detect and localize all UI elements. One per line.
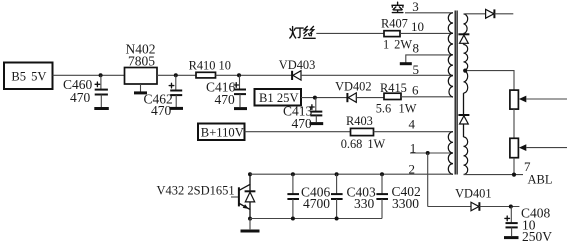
resistor R415 — [376, 81, 417, 116]
wire pin 1 — [410, 152, 453, 154]
svg-text:3300: 3300 — [392, 196, 419, 211]
svg-text:470: 470 — [70, 90, 91, 105]
ground — [241, 230, 260, 233]
regulator N402 7805 — [125, 42, 158, 92]
wire divider middle — [513, 109, 515, 138]
node at C462 — [174, 73, 178, 77]
wire R403 to winding pin 4 — [374, 131, 454, 133]
wire R407 to winding pin 10 — [400, 32, 453, 34]
svg-text:V432 2SD1651: V432 2SD1651 — [157, 184, 235, 198]
capacitor C402 — [376, 172, 420, 218]
diode D3 (HV winding, lower) — [458, 115, 469, 137]
wire pin1 down to VD401 — [427, 153, 429, 207]
transistor V432 2SD1651 — [157, 174, 256, 218]
transformer right winding section 1 — [464, 14, 468, 34]
node at C416 — [237, 73, 241, 77]
node collector — [248, 172, 252, 176]
svg-text:6: 6 — [412, 83, 419, 98]
wire top of right winding — [464, 13, 486, 15]
capacitor C403 — [331, 172, 376, 220]
wire VD401 to C408 — [479, 206, 519, 208]
svg-text:1 2W: 1 2W — [383, 37, 412, 51]
node at C413 — [313, 96, 317, 100]
node pin1 junction — [426, 151, 430, 155]
wire pin 3 stub — [405, 12, 453, 14]
svg-text:R403: R403 — [346, 114, 373, 128]
wire pin 8 — [406, 55, 453, 63]
box B5 5V — [4, 63, 53, 90]
ground — [94, 107, 109, 110]
wire divider bottom — [513, 158, 515, 175]
ground — [170, 107, 184, 110]
diode D1 (EHT, top right) — [486, 9, 495, 18]
wire R410 to VD403 — [216, 74, 292, 76]
svg-text:4700: 4700 — [303, 196, 330, 211]
svg-text:R410 10: R410 10 — [189, 58, 231, 72]
wire winding bottom to ABL — [464, 174, 524, 176]
svg-text:0.68 1W: 0.68 1W — [341, 137, 386, 151]
svg-text:470: 470 — [151, 103, 172, 118]
wire N402 to R410 — [157, 74, 196, 76]
wire B1 to VD402 — [301, 97, 347, 99]
svg-text:470: 470 — [292, 116, 313, 131]
box B1 25V — [255, 89, 302, 106]
wire VD402 to R415 — [356, 97, 384, 99]
box B+110V — [198, 124, 245, 141]
diode VD401 — [455, 187, 491, 211]
wire emitter to ground — [249, 219, 251, 230]
svg-text:5: 5 — [413, 62, 420, 77]
potentiometer RP1 (focus) — [510, 90, 567, 109]
resistor R403 — [341, 114, 386, 151]
capacitor C416 — [206, 75, 246, 107]
svg-text:B+110V: B+110V — [201, 126, 244, 140]
ground — [504, 236, 519, 239]
svg-text:B5 5V: B5 5V — [11, 70, 46, 84]
wire pin 2 rail (collector to winding) — [250, 173, 453, 175]
transformer T left winding section A (pins 3,10,8,5,6) — [448, 13, 453, 97]
wire R415 to winding pin 6 — [401, 96, 453, 98]
wire tap to divider — [467, 71, 514, 91]
capacitor C406 — [287, 172, 330, 220]
node ABL junction — [512, 173, 516, 177]
resistor R407 — [381, 17, 412, 52]
wire bottom rail — [250, 218, 382, 220]
capacitor C408 — [505, 206, 552, 244]
svg-text:5.6: 5.6 — [376, 102, 392, 116]
transformer right winding section 2 — [464, 45, 468, 94]
svg-text:330: 330 — [354, 196, 375, 211]
wire VD403 to winding pin 5 — [301, 74, 453, 76]
wire 5V rail from B5 to N402 — [53, 74, 125, 76]
node winding tap — [463, 69, 467, 73]
svg-text:8: 8 — [413, 41, 420, 56]
svg-text:R407: R407 — [381, 17, 408, 31]
label 灯丝 (filament) — [290, 26, 315, 38]
transformer core — [454, 11, 456, 175]
ground — [134, 91, 147, 94]
diode VD403 — [279, 58, 315, 80]
svg-text:VD401: VD401 — [455, 187, 491, 201]
resistor R410 — [189, 58, 231, 78]
transformer T left winding section B (pins 4,1,2) — [448, 132, 453, 175]
svg-text:VD402: VD402 — [335, 80, 371, 94]
wire pin1 to VD401 — [428, 206, 471, 208]
ground pin 8 — [400, 62, 412, 65]
node C408 — [509, 205, 513, 209]
transformer right winding section 3 — [464, 137, 468, 174]
wire winding plain segment — [463, 93, 465, 114]
ground — [234, 107, 247, 110]
svg-text:4: 4 — [409, 117, 416, 132]
wire EHT lead — [494, 13, 513, 15]
svg-text:10: 10 — [411, 19, 424, 34]
svg-text:1W: 1W — [399, 102, 417, 116]
diode VD402 — [335, 80, 371, 103]
svg-text:VD403: VD403 — [279, 58, 315, 72]
label 空 (empty) pin 3 — [392, 2, 403, 12]
diode D2 (HV winding, upper) — [458, 34, 469, 44]
ground — [310, 122, 324, 125]
wire filament to R407 — [316, 32, 384, 34]
svg-text:470: 470 — [215, 92, 236, 107]
svg-text:7805: 7805 — [128, 54, 155, 69]
node emitter — [248, 217, 252, 221]
wire B+110V to R403 — [245, 131, 351, 133]
potentiometer RP2 (screen) — [510, 138, 567, 157]
capacitor C462 — [144, 75, 183, 118]
svg-text:250V: 250V — [522, 229, 552, 244]
capacitor C460 — [63, 75, 108, 107]
svg-text:ABL: ABL — [528, 173, 553, 187]
svg-text:R415: R415 — [380, 81, 407, 95]
node at C460 — [99, 73, 103, 77]
capacitor C413 — [283, 98, 322, 131]
svg-text:3: 3 — [412, 0, 419, 14]
